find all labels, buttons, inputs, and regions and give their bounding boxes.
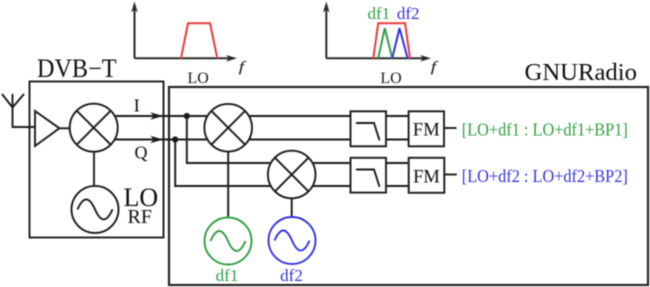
- svg-text:df1: df1: [216, 266, 239, 285]
- svg-text:GNURadio: GNURadio: [525, 59, 638, 86]
- svg-text:I: I: [134, 95, 140, 115]
- svg-text:df1: df1: [367, 4, 390, 23]
- svg-text:[LO+df2 : LO+df2+BP2]: [LO+df2 : LO+df2+BP2]: [462, 166, 628, 186]
- svg-text:[LO+df1 : LO+df1+BP1]: [LO+df1 : LO+df1+BP1]: [462, 119, 628, 139]
- svg-text:Q: Q: [135, 142, 148, 162]
- svg-text:LO: LO: [380, 70, 401, 87]
- svg-text:FM: FM: [413, 167, 440, 187]
- svg-text:RF: RF: [128, 206, 152, 228]
- svg-text:FM: FM: [413, 121, 440, 141]
- svg-text:df2: df2: [397, 4, 420, 23]
- svg-text:LO: LO: [188, 70, 209, 87]
- svg-text:df2: df2: [280, 266, 303, 285]
- svg-text:DVB−T: DVB−T: [37, 54, 117, 83]
